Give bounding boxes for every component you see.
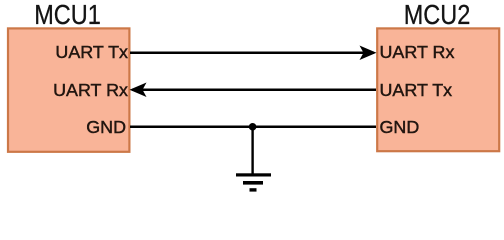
svg-text:MCU2: MCU2 (404, 0, 471, 30)
svg-text:UART Rx: UART Rx (53, 80, 128, 100)
svg-text:GND: GND (86, 117, 126, 137)
svg-text:MCU1: MCU1 (34, 0, 101, 30)
svg-text:UART Tx: UART Tx (55, 42, 128, 62)
svg-text:UART Tx: UART Tx (380, 80, 453, 100)
svg-text:UART Rx: UART Rx (380, 42, 455, 62)
svg-text:GND: GND (380, 117, 420, 137)
